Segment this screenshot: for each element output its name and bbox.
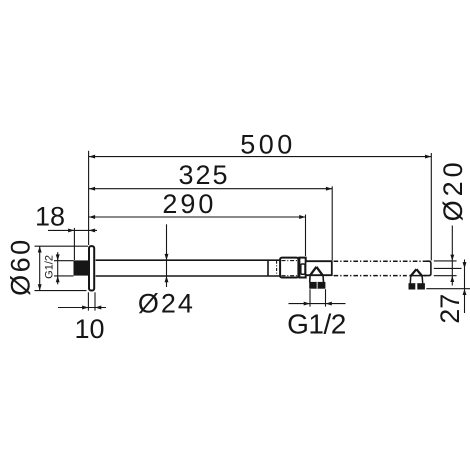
svg-text:325: 325 (178, 160, 229, 190)
svg-text:Ø60: Ø60 (6, 237, 36, 296)
svg-text:18: 18 (35, 201, 65, 231)
svg-text:10: 10 (74, 314, 104, 344)
svg-text:27: 27 (435, 294, 465, 324)
svg-text:500: 500 (240, 129, 296, 159)
svg-text:290: 290 (162, 189, 216, 219)
svg-text:G1/2: G1/2 (44, 255, 56, 279)
svg-text:Ø20: Ø20 (438, 158, 468, 221)
svg-text:Ø24: Ø24 (138, 289, 195, 319)
svg-text:G1/2: G1/2 (287, 309, 346, 340)
